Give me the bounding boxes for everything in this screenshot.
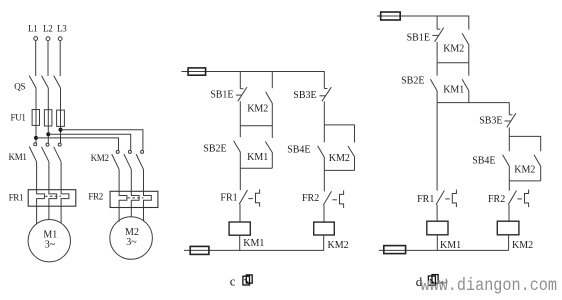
contactor KM1 main contact pole3 (54, 143, 62, 162)
wire KM2 coil to bottom rail c (323, 235, 325, 250)
svg-text:SB3E: SB3E (293, 90, 316, 101)
svg-text:L1: L1 (28, 24, 37, 34)
svg-text:SB1E: SB1E (210, 90, 233, 101)
svg-text:KM1: KM1 (243, 238, 264, 249)
wire KM2 aux to join d right (540, 167, 542, 181)
wire SB4E to join c right (323, 158, 325, 170)
wire FU1 to node2 (47, 126, 49, 143)
wire circuit c top rail (181, 72, 324, 89)
svg-text:KM2: KM2 (443, 43, 464, 54)
svg-text:SB4E: SB4E (472, 156, 495, 167)
svg-text:FR2: FR2 (488, 194, 505, 205)
wire junction to SB4E d (508, 136, 510, 151)
svg-text:KM2: KM2 (247, 104, 268, 115)
wire KM2 coil to bottom rail d (508, 235, 510, 251)
wire SB3E to junction d right (508, 127, 510, 136)
wire left rail d down to FR1 (436, 103, 438, 191)
svg-text:FR1: FR1 (417, 194, 434, 205)
wire join d right (509, 180, 540, 182)
node L2 terminal (46, 37, 50, 41)
wire KM1 pole3 to FR1 (60, 162, 62, 190)
disconnect switch QS pole 3 (54, 76, 61, 88)
wire FR2 contact to KM2 coil d (508, 205, 510, 222)
thermal relay FR2 heater 3 (144, 191, 152, 207)
wire FR1 contact to KM1 coil d (436, 205, 438, 222)
wire KM2 pole3 to FR2 (143, 169, 145, 191)
pushbutton SB2E NO contact (234, 141, 241, 153)
thermal relay FR2 heater 1 (119, 191, 127, 207)
wire row1 join to SB2E d (436, 63, 438, 76)
pushbutton SB3E NC contact (320, 87, 332, 101)
thermal relay FR1 linkage dashes (45, 195, 61, 197)
thermal relay FR1 box (28, 190, 76, 207)
svg-text:SB2E: SB2E (401, 76, 424, 87)
wire FR2 contact to KM2 coil c (323, 205, 325, 222)
svg-text:FR2: FR2 (302, 193, 319, 204)
wire FR2 to motor M2 line2 (130, 208, 132, 218)
wire FR1 to motor M1 line2 (48, 206, 50, 220)
coil KM1 circuit c (229, 222, 250, 235)
contactor KM2 aux NO contact c (266, 92, 273, 104)
svg-text:c: c (230, 273, 236, 288)
wire left subrail c from top rail (239, 72, 241, 89)
wire KM2 pole2 to FR2 (130, 169, 132, 191)
svg-text:www.diangon.com: www.diangon.com (421, 276, 558, 296)
wire SB1E to row1 join d (436, 42, 438, 63)
svg-text:3~: 3~ (45, 240, 56, 251)
motor M1 circle (28, 220, 70, 262)
wire KM1 coil to bottom rail c (239, 235, 241, 250)
fuse FU bottom of circuit c (190, 246, 209, 254)
svg-text:KM2: KM2 (512, 240, 533, 251)
wire FU1 to node1 (35, 125, 37, 142)
node L1 terminal (34, 37, 38, 41)
wire row2 join c (240, 167, 272, 169)
wire L2 to QS (47, 41, 49, 76)
svg-text:FR1: FR1 (220, 192, 237, 203)
wire row2 join to FR1 contact c (239, 168, 241, 190)
svg-text:L3: L3 (57, 24, 67, 34)
contactor KM2 aux NO contact c right (348, 146, 355, 157)
wire row1 join to SB2E (239, 126, 241, 137)
pushbutton SB1E NC contact (236, 87, 247, 101)
fuse FU top of circuit d (381, 12, 401, 20)
wire SB3E to junction c right (323, 101, 325, 125)
wire KM1 aux to row2 join c (271, 153, 273, 168)
coil KM2 circuit c (314, 222, 335, 235)
wire row1 join to KM1 aux (271, 126, 273, 138)
svg-text:QS: QS (14, 82, 25, 92)
wire KM1 coil to bottom rail d (436, 235, 438, 251)
contactor KM2 main contact pole2 (124, 150, 131, 169)
wire FR2 to motor M2 line3 (143, 208, 145, 222)
wire branch phase3 to KM2 pole3 (61, 130, 143, 150)
wire FU1 to node3 (60, 126, 62, 143)
thermal relay FR1 heater 1 (37, 190, 45, 207)
wire right subrail c from top rail (271, 72, 273, 89)
wire KM2 aux to row1 join d (468, 45, 470, 63)
junction node phase1 (34, 136, 38, 140)
svg-text:FU1: FU1 (11, 113, 26, 123)
svg-text:KM1: KM1 (440, 240, 461, 251)
svg-text:KM2: KM2 (329, 153, 350, 164)
junction node phase2 (46, 132, 50, 136)
svg-text:KM1: KM1 (443, 84, 464, 95)
wire join c right (324, 169, 354, 171)
svg-text:KM1: KM1 (9, 152, 27, 162)
wire QS pole1 to FU1 (35, 88, 37, 110)
wire junction to SB4E (323, 125, 325, 142)
disconnect switch QS pole 1 (29, 76, 36, 88)
svg-text:FR1: FR1 (9, 192, 24, 202)
icon broken image d (428, 275, 438, 286)
glyph carriage return after icon d (441, 279, 446, 285)
coil KM1 circuit d (427, 221, 448, 235)
wire L1 to QS (35, 41, 37, 77)
wire junction to KM2 aux branch c right (324, 125, 354, 142)
fuse FU top of circuit c (188, 68, 206, 75)
wire circuit d top rail (377, 16, 469, 30)
svg-text:KM2: KM2 (91, 153, 109, 163)
wire FR2 to motor M2 line1 (118, 208, 120, 222)
wire circuit c bottom rail (184, 249, 324, 251)
pushbutton SB2E NO contact d (430, 79, 437, 91)
fuse FU bottom of circuit d (384, 246, 406, 254)
svg-text:FR2: FR2 (88, 192, 103, 202)
svg-text:KM1: KM1 (247, 152, 268, 163)
thermal relay FR2 box (110, 191, 158, 207)
svg-text:SB1E: SB1E (407, 32, 430, 43)
contactor KM2 main contact pole3 (136, 150, 144, 169)
wire row1 join d (437, 62, 469, 64)
wire row1 join to KM1 aux d (468, 63, 470, 76)
contactor KM2 aux NO contact d (462, 33, 469, 45)
motor M2 circle (110, 217, 153, 260)
svg-text:SB2E: SB2E (203, 143, 226, 154)
wire KM1 pole2 to FR1 (48, 162, 50, 190)
contactor KM1 aux NO contact c (265, 142, 272, 153)
contactor KM1 aux NO contact d (462, 79, 469, 91)
wire row2 join d extending to right branch (437, 102, 509, 104)
thermal relay FR1 heater 3 (61, 190, 69, 207)
svg-text:SB3E: SB3E (479, 116, 502, 127)
icon broken image c (243, 275, 252, 285)
thermal relay FR2 NC contact c (323, 190, 343, 208)
node L3 terminal (58, 37, 62, 41)
wire KM2 pole1 to FR2 (118, 169, 120, 191)
wire KM1 aux to row2 join d (468, 91, 470, 103)
coil KM2 circuit d (497, 221, 519, 235)
thermal relay FR2 NC contact d (508, 190, 528, 208)
wire SB2E to row2 join d (436, 91, 438, 103)
fuse FU1 element 3 (57, 110, 65, 126)
wire SB2E to row2 join c (239, 152, 241, 168)
wire KM2 aux to row1 join c (271, 104, 273, 126)
disconnect switch QS pole 2 (42, 76, 49, 88)
wire join to FR2 contact d (508, 181, 510, 191)
wire SB1E to row1 join c (239, 101, 241, 126)
fuse FU1 element 1 (32, 110, 39, 126)
svg-text:KM2: KM2 (514, 165, 535, 176)
thermal relay FR1 NC contact d (436, 190, 456, 208)
wire FR1 contact to KM1 coil (239, 204, 241, 222)
wire SB4E to join d right (508, 167, 510, 181)
pushbutton SB4E NO contact (318, 146, 325, 158)
contactor KM2 aux NO contact d right (534, 155, 541, 167)
pushbutton SB1E NC contact d (432, 28, 443, 42)
svg-text:L2: L2 (43, 24, 52, 34)
wire QS pole3 to FU1 (60, 88, 62, 110)
svg-text:SB4E: SB4E (287, 144, 310, 155)
wire L3 to QS (59, 41, 61, 76)
wire QS pole2 to FU1 (47, 88, 49, 110)
thermal relay FR2 heater 2 (131, 191, 139, 207)
wire branch phase2 to KM2 pole2 (48, 134, 130, 150)
wire right branch d from join (508, 103, 510, 115)
contactor KM1 main contact pole2 (42, 143, 50, 162)
pushbutton SB4E NO contact d (503, 155, 510, 167)
wire FR1 to motor M1 line1 (36, 206, 38, 224)
junction node phase3 (59, 128, 63, 132)
pushbutton SB3E NC contact d (505, 113, 516, 127)
wire KM2 aux to join c right (354, 157, 356, 170)
wire FR1 to motor M1 line3 (60, 206, 62, 223)
wire branch phase1 to KM2 pole1 (36, 138, 119, 150)
svg-text:KM2: KM2 (328, 240, 349, 251)
thermal relay FR1 NC contact c (239, 189, 259, 207)
thermal relay FR1 heater 2 (49, 190, 57, 207)
wire left subrail d from top rail (436, 16, 438, 29)
svg-text:3~: 3~ (126, 237, 137, 248)
contactor KM1 main contact pole1 (29, 143, 37, 162)
contactor KM2 main contact pole1 (112, 150, 120, 169)
wire junction to KM2 aux branch d right (509, 136, 540, 151)
fuse FU1 element 2 (44, 110, 52, 126)
wire KM1 pole1 to FR1 (36, 162, 38, 190)
thermal relay FR2 linkage dashes (128, 197, 144, 199)
wire join to FR2 contact c (323, 170, 325, 191)
wire row1 join c (240, 125, 272, 127)
wire circuit d bottom rail (379, 249, 509, 251)
